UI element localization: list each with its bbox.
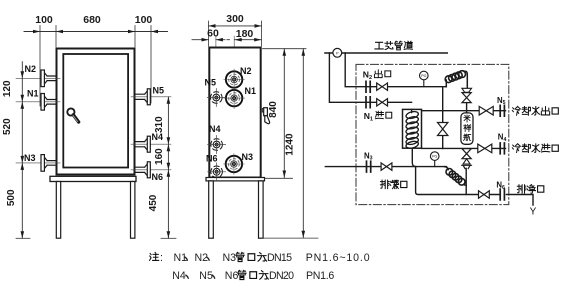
valve on N1 inlet line	[377, 99, 388, 106]
pressure gauge PG2	[434, 160, 436, 166]
valve on N3 line	[381, 163, 392, 170]
top dimension line	[24, 31, 168, 33]
bottom pigtail siphon coil	[445, 167, 467, 186]
svg-text:160: 160	[154, 148, 165, 165]
svg-text:N1: N1	[27, 89, 39, 99]
wire funnel/valve to outlet line	[466, 103, 468, 113]
svg-text:N4: N4	[498, 133, 507, 143]
valve on inlet line	[478, 144, 492, 153]
bypass valve (vertical)	[438, 123, 448, 136]
svg-text:N5: N5	[199, 270, 213, 282]
svg-text:N2: N2	[195, 252, 209, 264]
svg-text:450: 450	[148, 194, 159, 211]
base plate	[50, 176, 136, 181]
svg-text:N2: N2	[363, 70, 372, 82]
exchanger sample outlet wire	[412, 148, 415, 166]
bottom funnel	[463, 159, 470, 164]
flange N5	[500, 105, 504, 116]
ground tick right	[161, 237, 176, 239]
branch wire to N2 outlet	[345, 53, 446, 87]
side top dimension line 300	[209, 25, 262, 27]
svg-text:N1: N1	[364, 111, 373, 123]
right leg	[131, 182, 135, 239]
drain outlet wire to Y	[506, 195, 533, 206]
sampling bottom valve (vertical)	[462, 149, 471, 159]
svg-text:PN1.6~10.0: PN1.6~10.0	[306, 252, 371, 264]
cooling water inlet line	[422, 147, 506, 149]
right vertical dimension line	[167, 97, 169, 239]
nozzle circle N2 (side)	[224, 69, 245, 90]
svg-text:N6: N6	[152, 172, 164, 182]
valve on outlet line	[479, 106, 493, 115]
flange N4	[500, 143, 504, 154]
flange N3	[367, 161, 371, 172]
label 排净口	[517, 185, 525, 193]
pressure gauge PG1	[423, 80, 425, 87]
nozzle column centerline N2/N1/N3	[233, 36, 235, 172]
svg-text:310: 310	[154, 116, 165, 133]
heat exchanger shell	[403, 109, 422, 148]
label 排凝口	[380, 180, 388, 188]
svg-text:N2: N2	[25, 64, 37, 74]
cabinet door inner	[63, 54, 128, 168]
svg-text:N2: N2	[240, 66, 252, 76]
svg-text:120: 120	[2, 80, 13, 97]
hidden nozzle N4 (side)	[208, 136, 226, 154]
side door handle	[262, 108, 269, 124]
svg-text:680: 680	[83, 14, 101, 26]
flange pair on N1 inlet line	[366, 97, 370, 108]
svg-text:180: 180	[236, 28, 254, 40]
nozzle circle N1 (side)	[224, 88, 245, 109]
svg-text:840: 840	[268, 101, 279, 118]
door handle	[67, 108, 74, 115]
nozzle N2 centerline	[16, 77, 60, 79]
nozzle N5 centerline	[131, 96, 171, 98]
process pipe line	[325, 52, 447, 54]
svg-text:N6: N6	[206, 154, 218, 164]
svg-text:N4: N4	[209, 124, 221, 134]
svg-text:N6: N6	[496, 181, 505, 191]
wire funnel to drain header	[465, 168, 467, 194]
nozzle N6 centerline	[131, 169, 171, 171]
cooling water outlet line	[422, 110, 506, 112]
left leg	[56, 182, 60, 239]
label 冷却水进口	[512, 144, 520, 153]
center bypass wire	[442, 87, 444, 149]
svg-text:N3: N3	[24, 153, 36, 163]
sampling top valve (vertical)	[462, 93, 471, 103]
svg-text:N5: N5	[497, 96, 506, 106]
svg-text:N5: N5	[205, 78, 217, 88]
side second dimension line	[192, 39, 209, 41]
valve on drain header	[479, 191, 490, 198]
nozzle N3 centerline	[16, 162, 60, 164]
svg-text:100: 100	[135, 14, 153, 26]
svg-text:60: 60	[207, 27, 219, 39]
nozzle N4 centerline	[131, 143, 171, 145]
svg-text:520: 520	[2, 118, 13, 135]
nozzle N1 centerline	[16, 101, 60, 103]
svg-text:500: 500	[6, 189, 17, 206]
svg-text:PG: PG	[421, 74, 426, 78]
sampling bottle	[461, 113, 473, 144]
840 dimension	[263, 48, 307, 50]
svg-text:N3: N3	[364, 151, 373, 161]
svg-text:PN1.6: PN1.6	[306, 270, 334, 282]
cabinet outer box	[57, 49, 135, 175]
svg-text:N6: N6	[225, 270, 239, 282]
svg-text:100: 100	[35, 14, 53, 26]
label 冷却水出口	[512, 106, 520, 115]
svg-text:N1: N1	[245, 86, 257, 96]
svg-text:N4: N4	[172, 270, 186, 282]
extension lines top	[40, 26, 151, 107]
label 工艺管道	[375, 42, 383, 49]
extension lines 300	[209, 21, 262, 46]
svg-text:PG: PG	[432, 155, 437, 159]
flange N6	[500, 189, 504, 200]
hidden nozzle N6 (side)	[208, 163, 226, 181]
nozzle circle N3 (side)	[224, 154, 245, 175]
branch wire to N1 inlet	[329, 53, 411, 102]
svg-text:N5: N5	[153, 86, 165, 96]
label 采样瓶 (vertical)	[464, 115, 470, 122]
note line 1	[150, 252, 159, 260]
top pigtail siphon coil	[445, 71, 467, 89]
hidden nozzle N5 (side)	[207, 89, 225, 107]
svg-text:N3: N3	[223, 252, 237, 264]
svg-text:300: 300	[226, 13, 244, 25]
svg-text::: :	[160, 252, 163, 264]
boundary dash-dot box	[356, 64, 509, 204]
drain header wire	[416, 167, 501, 195]
side cabinet box	[209, 48, 260, 178]
840 bottom extension	[265, 177, 293, 179]
valve on N2 outlet line	[377, 83, 388, 90]
nozzle column centerline N5/N4/N6	[215, 36, 217, 176]
side left leg	[209, 181, 214, 238]
ground tick front	[16, 237, 30, 239]
side right leg	[259, 181, 264, 238]
exchanger coil	[405, 109, 419, 149]
svg-text:DN15: DN15	[267, 252, 292, 264]
flange pair on N2 outlet line	[366, 81, 370, 92]
svg-text:Y: Y	[530, 207, 537, 218]
instrument circle on pipe	[333, 48, 342, 57]
left vertical dimension line	[21, 62, 23, 239]
N3 blowdown line	[325, 166, 446, 168]
ground line side	[262, 237, 318, 239]
svg-text:N3: N3	[242, 152, 254, 162]
svg-text:1240: 1240	[285, 133, 296, 156]
funnel above sampling valve	[462, 88, 472, 92]
svg-text:DN20: DN20	[269, 270, 294, 282]
side base plate	[206, 178, 265, 181]
